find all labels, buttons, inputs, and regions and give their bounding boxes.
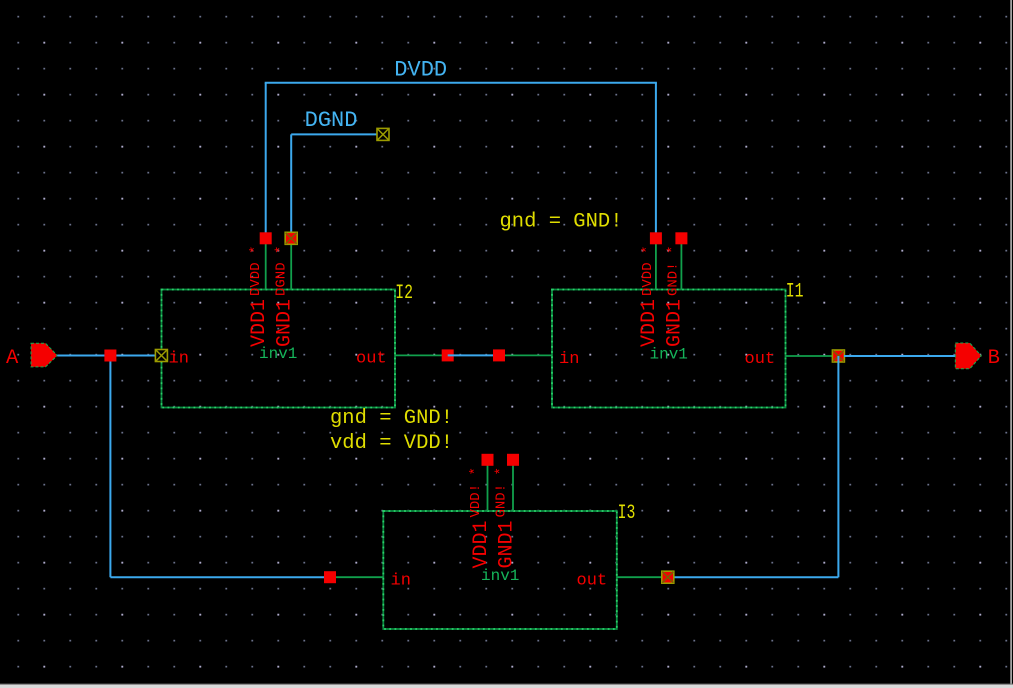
svg-text:B: B — [988, 347, 1000, 370]
svg-text:in: in — [559, 350, 579, 369]
I1 in pin stub — [499, 354, 552, 356]
inverter I2 — [155, 232, 453, 407]
svg-text:GND1: GND1 — [274, 299, 297, 347]
I1 body — [552, 290, 786, 408]
I3 VDD1 pin connection square — [482, 454, 494, 466]
svg-text:I1: I1 — [786, 281, 804, 304]
wire DVDD vertical left (to I2 VDD1 pin) — [265, 83, 267, 234]
I2 VDD1 pin connection square — [260, 232, 272, 244]
wire I2 out to I1 in — [448, 354, 499, 356]
svg-text:inv1: inv1 — [481, 567, 519, 585]
I1 pin stub GND1 — [680, 238, 682, 289]
I3 out pin connection square with X-box marker — [662, 571, 674, 583]
I1 in pin connection square — [493, 349, 505, 361]
I3 out pin stub — [617, 576, 669, 578]
I2 in pin X-box marker — [155, 350, 167, 362]
I1 VDD1 pin connection square — [650, 232, 662, 244]
svg-text:GND1: GND1 — [664, 299, 687, 347]
wire vertical from node to bottom row — [109, 356, 111, 578]
inverter I3 — [324, 454, 674, 629]
svg-text:in: in — [391, 572, 411, 591]
svg-text:VDD1: VDD1 — [470, 520, 493, 568]
svg-text:out: out — [356, 350, 387, 369]
svg-text:out: out — [745, 350, 776, 369]
svg-text:GND! *: GND! * — [665, 246, 681, 296]
svg-text:inv1: inv1 — [259, 345, 297, 363]
wire I1 out to port B — [844, 355, 956, 357]
I3 body — [383, 511, 617, 629]
output port B (red pentagon) — [955, 343, 981, 369]
I2 pin stub GND1 — [290, 238, 292, 289]
svg-text:gnd = GND!: gnd = GND! — [500, 210, 623, 233]
pin marker (X-box) at DGND wire end — [377, 128, 389, 140]
svg-text:VDD1: VDD1 — [638, 299, 661, 347]
svg-text:VDD! *: VDD! * — [468, 467, 484, 517]
svg-text:A: A — [6, 347, 19, 370]
window frame bottom edge — [0, 684, 1013, 685]
svg-text:VDD1: VDD1 — [248, 299, 271, 347]
svg-text:in: in — [169, 350, 189, 369]
wire bottom row to I3 in — [110, 576, 330, 578]
svg-text:GND1: GND1 — [495, 520, 518, 568]
I2 out pin stub — [395, 354, 448, 356]
svg-text:inv1: inv1 — [650, 346, 688, 364]
svg-text:DVDD: DVDD — [394, 58, 447, 83]
I3 in pin connection square — [324, 571, 336, 583]
I1 out pin connection square with X-box marker — [832, 350, 844, 362]
I2 out pin connection square — [442, 349, 454, 361]
wire DVDD horizontal top — [265, 82, 657, 84]
svg-text:vdd = VDD!: vdd = VDD! — [330, 432, 453, 455]
svg-text:DVDD *: DVDD * — [640, 246, 656, 296]
wire DGND vertical (to I2 GND1 pin) — [290, 134, 292, 234]
wire DVDD vertical right (to I1 VDD1 pin) — [655, 83, 657, 234]
I3 pin stub VDD1 — [487, 460, 489, 511]
svg-text:DGND: DGND — [305, 108, 358, 133]
svg-text:DVDD *: DVDD * — [248, 246, 264, 296]
I2 GND1 pin connection square with X-box marker — [285, 232, 297, 244]
svg-text:DGND *: DGND * — [273, 246, 289, 296]
I3 pin stub GND1 — [512, 460, 514, 511]
I3 in pin stub — [330, 576, 383, 578]
I1 pin stub VDD1 — [655, 238, 657, 289]
wire bottom from I3 out to right vertical — [674, 576, 838, 578]
I3 GND1 pin connection square — [507, 454, 519, 466]
wire from port A to I2 in — [57, 355, 161, 357]
svg-text:I3: I3 — [618, 502, 636, 525]
I2 pin stub VDD1 — [265, 238, 267, 289]
svg-text:GND! *: GND! * — [493, 467, 509, 517]
svg-text:I2: I2 — [395, 282, 413, 305]
window frame right edge — [1010, 0, 1012, 688]
I2 body — [162, 290, 396, 408]
I1 GND1 pin connection square — [675, 232, 687, 244]
svg-text:out: out — [577, 572, 608, 591]
inverter I1 — [493, 232, 844, 407]
wire DGND horizontal — [291, 133, 378, 135]
wire vertical right feedback — [837, 356, 839, 577]
svg-text:gnd = GND!: gnd = GND! — [330, 407, 453, 430]
junction square at node A branch — [104, 350, 116, 362]
input port A (red pentagon) — [31, 343, 57, 367]
I1 out pin stub — [786, 355, 839, 357]
